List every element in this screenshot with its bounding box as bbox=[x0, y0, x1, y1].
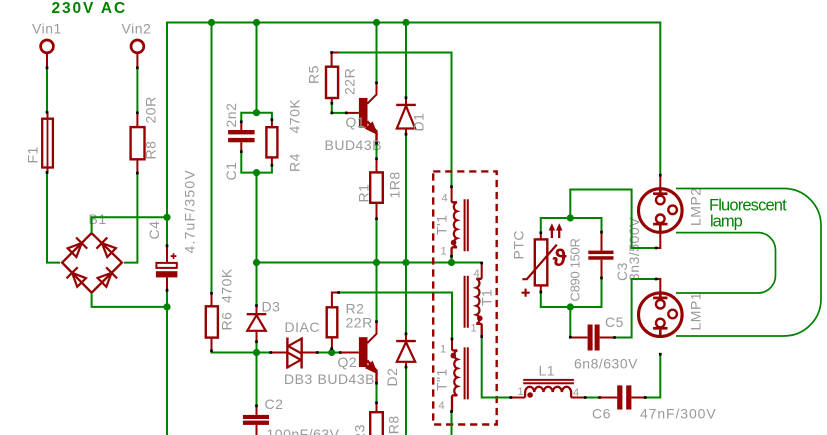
pin ticks R6 bbox=[210, 292, 213, 352]
pin LMP1 top lead bbox=[656, 279, 660, 293]
capacitor C1 plate1 bbox=[228, 130, 255, 134]
polarity dot T"1 bbox=[451, 353, 457, 359]
junction mid-rail T'1 bbox=[448, 259, 455, 266]
pin ticks DIAC bbox=[269, 351, 341, 354]
pin ticks C5 bbox=[569, 278, 658, 339]
pin T"1 1 lead bbox=[451, 339, 453, 351]
svg-text:R4: R4 bbox=[287, 153, 303, 172]
svg-text:PTC: PTC bbox=[511, 230, 527, 260]
pin R1 bottom bbox=[376, 203, 378, 219]
svg-text:ϑ: ϑ bbox=[553, 245, 567, 272]
wire mid-rail node OUT bbox=[257, 262, 482, 264]
wire C1 top link bbox=[241, 113, 256, 122]
svg-text:1: 1 bbox=[441, 246, 448, 258]
wire R1 to mid-rail bbox=[376, 219, 378, 263]
capacitor C6 plate1 bbox=[617, 385, 622, 409]
capacitor C5 plate2 bbox=[595, 325, 600, 351]
pin ticks T1mid bbox=[480, 262, 483, 338]
pin ticks C4 bbox=[166, 244, 169, 291]
junction mid-rail x376 bbox=[373, 259, 380, 266]
svg-text:T'1: T'1 bbox=[434, 214, 450, 235]
wire mid-rail to D3 bbox=[256, 263, 258, 306]
svg-text:C5: C5 bbox=[605, 314, 624, 330]
wire DC- down off-sheet bbox=[166, 307, 168, 435]
pin L1 4 lead bbox=[571, 397, 585, 399]
diode D2 bbox=[396, 341, 416, 362]
pin ticks LMP2 top bbox=[659, 174, 662, 177]
svg-text:Q2: Q2 bbox=[338, 354, 358, 370]
svg-text:lamp: lamp bbox=[710, 213, 743, 231]
pin R8 bottom bbox=[136, 159, 138, 173]
svg-text:Q1: Q1 bbox=[346, 114, 366, 130]
junction DIAC rail D3 bbox=[253, 349, 260, 356]
svg-text:R3: R3 bbox=[352, 424, 368, 435]
core L1 bbox=[523, 380, 574, 383]
svg-text:D1: D1 bbox=[411, 113, 427, 132]
pin ticks C6 bbox=[644, 396, 647, 399]
junction DC- at C4 bottom bbox=[163, 303, 170, 310]
bridge B1 diode minus-ac2 bbox=[98, 267, 118, 287]
wire Q1 emitter to R1 bbox=[376, 143, 378, 159]
pin ticks LMP2 bottom bbox=[655, 247, 658, 250]
wire R4 bottom link bbox=[257, 166, 272, 173]
bridge B1 diode ac1-plus bbox=[68, 238, 88, 258]
winding T1 bbox=[476, 279, 481, 324]
svg-text:T"1: T"1 bbox=[434, 368, 450, 391]
svg-text:1R8: 1R8 bbox=[386, 415, 402, 435]
wire Vin2 to R8 bbox=[136, 68, 138, 113]
pin ticks T'1 bbox=[450, 185, 453, 257]
svg-text:20R: 20R bbox=[143, 96, 159, 123]
junction bus x376 bbox=[373, 19, 380, 26]
pin ticks PTC bbox=[539, 231, 542, 293]
svg-text:R1: R1 bbox=[356, 184, 372, 203]
pin ticks T"1 bbox=[450, 338, 453, 413]
pin DIAC right bbox=[302, 352, 318, 354]
wire PTC loop bottom bbox=[541, 278, 602, 307]
pin C5 right bbox=[600, 337, 615, 339]
wire C4 top lead bbox=[166, 217, 168, 246]
thermistor PTC slash bbox=[522, 245, 556, 280]
bridge B1 diode minus-ac1 bbox=[67, 267, 87, 287]
svg-text:1: 1 bbox=[518, 386, 525, 398]
svg-text:C890 150R: C890 150R bbox=[568, 238, 583, 301]
pin R2 bottom bbox=[331, 337, 333, 348]
pin L1 1 lead bbox=[511, 397, 525, 399]
svg-text:T1: T1 bbox=[479, 289, 495, 306]
pin C2 bottom bbox=[256, 425, 258, 435]
transistor Q2 base bar bbox=[359, 337, 368, 367]
wire T'1 to mid-rail bbox=[451, 257, 453, 263]
capacitor C4 minus plate bbox=[156, 271, 178, 277]
svg-text:1: 1 bbox=[440, 344, 447, 356]
capacitor C1 plate2 bbox=[228, 138, 255, 142]
pin DIAC left bbox=[272, 352, 287, 354]
lamp LMP2 bbox=[639, 188, 683, 234]
junction C1R4 bottom bbox=[253, 169, 260, 176]
diode D1 bbox=[396, 105, 416, 129]
svg-text:R8: R8 bbox=[143, 141, 159, 160]
svg-text:Vin1: Vin1 bbox=[32, 21, 62, 37]
fuse F1 bbox=[42, 119, 53, 168]
wire Q2 emitter to R3 bbox=[376, 383, 378, 403]
svg-text:6n8/630V: 6n8/630V bbox=[574, 356, 638, 372]
junction mid-rail left bbox=[253, 259, 260, 266]
svg-text:470K: 470K bbox=[219, 268, 235, 303]
svg-text:4: 4 bbox=[439, 400, 446, 412]
pin D3 cathode bbox=[256, 306, 258, 314]
pin C2 top bbox=[256, 406, 258, 415]
svg-text:C4: C4 bbox=[146, 221, 162, 240]
wire mid-rail to D2 bbox=[405, 263, 407, 335]
pin R6 top bbox=[211, 294, 213, 307]
wire Vin1 to F1 bbox=[46, 68, 48, 112]
transistor Q1 emitter bbox=[367, 121, 376, 143]
thermistor PTC arrows bbox=[549, 223, 563, 238]
svg-text:4: 4 bbox=[474, 268, 481, 280]
svg-text:DB3: DB3 bbox=[284, 371, 313, 387]
svg-text:D3: D3 bbox=[262, 299, 281, 315]
junction mid-rail x406 bbox=[402, 259, 409, 266]
capacitor C3 plate2 bbox=[588, 256, 613, 260]
svg-text:C2: C2 bbox=[265, 396, 284, 412]
wire bus to C1 block bbox=[256, 23, 258, 113]
junction Q2 base node bbox=[328, 349, 335, 356]
pin F1 top bbox=[47, 112, 49, 119]
resistor R3 (cut) bbox=[370, 412, 383, 435]
pin ticks C3 bbox=[600, 231, 603, 280]
thermistor PTC plus bbox=[522, 289, 530, 297]
svg-text:1: 1 bbox=[471, 323, 478, 335]
wire DIAC rail bbox=[212, 352, 273, 354]
wire bus to D1 bbox=[405, 23, 407, 98]
resistor R2 bbox=[327, 307, 338, 337]
pin R4 bottom bbox=[271, 157, 273, 165]
pin ticks Vin1 branch bbox=[46, 66, 49, 173]
svg-text:L1: L1 bbox=[539, 363, 556, 379]
pin ticks Vin2 branch bbox=[136, 66, 139, 174]
pin ticks Q2 R2 R3 bbox=[330, 291, 378, 404]
svg-text:1R8: 1R8 bbox=[387, 171, 403, 198]
capacitor C4 plus sign bbox=[171, 253, 177, 259]
junction DC+ at C4 top bbox=[163, 214, 170, 221]
pin LMP2 bottom lead bbox=[656, 233, 660, 248]
pin Vin1 stub bbox=[46, 53, 48, 68]
svg-text:230V AC: 230V AC bbox=[52, 0, 128, 17]
svg-text:D2: D2 bbox=[384, 368, 400, 387]
pin Q2 collector bbox=[367, 322, 376, 344]
wire T1 to L1 bbox=[482, 337, 511, 398]
pin D3 anode bbox=[256, 331, 258, 342]
wire mid-rail to Q2 collector bbox=[376, 263, 378, 322]
svg-text:4: 4 bbox=[573, 387, 580, 399]
pin T'1 4 lead bbox=[451, 187, 453, 203]
fuse F1 wire-through bbox=[47, 119, 49, 167]
pin R4 top bbox=[271, 120, 273, 128]
pin R1 top bbox=[376, 159, 378, 172]
svg-text:F1: F1 bbox=[25, 146, 41, 163]
diode D3 bbox=[247, 314, 267, 331]
svg-text:LMP2: LMP2 bbox=[688, 187, 704, 226]
pin ticks Q1 R5 R1 bbox=[330, 51, 378, 220]
transformer T1 boundary box bbox=[433, 171, 497, 424]
transistor Q1 base bar bbox=[359, 98, 368, 128]
pin C4 plus bbox=[166, 246, 168, 263]
pin D2 cathode bbox=[405, 334, 407, 341]
wire R6 to DIAC rail bbox=[212, 351, 257, 353]
wire C1 block to mid-rail bbox=[256, 173, 258, 263]
wire rail to C2 bbox=[256, 353, 258, 407]
svg-text:C1: C1 bbox=[223, 162, 239, 181]
wire DIAC to R2 node bbox=[318, 352, 332, 354]
pin R2 top corner bbox=[332, 293, 339, 308]
pin C5 left bbox=[570, 337, 587, 339]
pin C1 top bbox=[240, 122, 242, 130]
wire R2 to T"1 pin1 bbox=[339, 293, 452, 339]
junction bus x211 bbox=[208, 19, 215, 26]
pin Q2 base bbox=[341, 352, 359, 354]
svg-text:Fluorescent: Fluorescent bbox=[709, 196, 787, 214]
wire R5 to T'1 pin4 bbox=[339, 53, 452, 187]
wire D3 to rail bbox=[256, 342, 258, 353]
svg-text:R6: R6 bbox=[219, 312, 235, 331]
wire PTC to C5 bbox=[569, 307, 571, 338]
pin ticks D3 bbox=[255, 304, 258, 343]
wire B1 plus to DC+ corner bbox=[92, 217, 167, 233]
wire D2 down off-sheet bbox=[405, 367, 407, 435]
inductor L1 coil bbox=[525, 387, 571, 398]
polarity dot T'1 bbox=[451, 240, 457, 246]
svg-text:BUD43B: BUD43B bbox=[325, 137, 382, 153]
wire D1 to mid-rail bbox=[405, 134, 407, 263]
wire F1 to B1 ac1 bbox=[47, 173, 60, 263]
wire bus to Q1 collector bbox=[376, 23, 378, 84]
capacitor C3 plate1 bbox=[588, 251, 613, 255]
svg-text:BUD43B: BUD43B bbox=[318, 371, 375, 387]
core T1 bbox=[465, 276, 468, 328]
wire C1 bottom link bbox=[241, 152, 256, 173]
wire bus to R6 bbox=[211, 23, 213, 294]
wire DC+ top bus bbox=[167, 23, 660, 218]
svg-text:Vin2: Vin2 bbox=[122, 21, 152, 37]
svg-text:C6: C6 bbox=[592, 406, 611, 422]
pin D2 anode bbox=[405, 362, 407, 367]
wire C6 to LMP1 bbox=[645, 355, 660, 398]
wire L1 to C6 bbox=[585, 397, 599, 399]
wire PTC to LMP2 bottom bbox=[570, 190, 656, 249]
svg-text:22R: 22R bbox=[346, 315, 373, 331]
polarity dot T1 bbox=[477, 316, 483, 322]
resistor R4 bbox=[266, 127, 277, 157]
wire B1 minus rail bbox=[92, 293, 167, 307]
bridge rectifier B1 frame bbox=[62, 233, 122, 293]
capacitor C2 plate2 bbox=[243, 421, 269, 425]
pin C6 right bbox=[631, 397, 645, 399]
pin ticks C1 R4 bbox=[240, 118, 273, 166]
capacitor C5 plate1 bbox=[588, 325, 593, 351]
svg-text:LMP1: LMP1 bbox=[688, 292, 704, 331]
pin Q1 collector bbox=[367, 83, 376, 104]
pin C3 top bbox=[601, 232, 603, 250]
pin R5 bottom bbox=[331, 98, 333, 104]
svg-text:2n2: 2n2 bbox=[223, 103, 239, 128]
pin R3 top bbox=[376, 403, 378, 412]
wire DIAC rail right bbox=[301, 352, 341, 354]
pin PTC bottom bbox=[540, 285, 542, 291]
resistor R6 bbox=[206, 306, 218, 337]
core T"1 bbox=[465, 347, 468, 399]
resistor R5 bbox=[326, 67, 338, 98]
svg-text:4: 4 bbox=[442, 193, 449, 205]
junction bus x256 bbox=[253, 19, 260, 26]
pin LMP2 top lead bbox=[659, 176, 661, 190]
svg-text:470K: 470K bbox=[287, 99, 303, 134]
capacitor C2 plate1 bbox=[243, 415, 269, 419]
pin R5 top corner bbox=[332, 53, 339, 67]
winding T'1 bbox=[452, 202, 457, 247]
svg-text:R5: R5 bbox=[306, 65, 322, 84]
junction bus x406 bbox=[402, 19, 409, 26]
pin ticks LMP1 bbox=[659, 353, 662, 356]
terminal Vin2 bbox=[131, 40, 144, 53]
pin R8 top bbox=[136, 113, 138, 128]
pin C6 left bbox=[600, 397, 618, 399]
wire R5 to Q1 base bbox=[332, 104, 347, 113]
pin R6 bottom bbox=[211, 338, 213, 351]
pin D1 anode bbox=[405, 129, 407, 135]
junction PTC bottom bbox=[567, 303, 574, 310]
pin ticks D1 bbox=[405, 96, 408, 135]
svg-text:22R: 22R bbox=[342, 68, 358, 95]
capacitor C6 plate2 bbox=[626, 385, 631, 409]
junction C1R4 top bbox=[253, 109, 260, 116]
svg-text:DIAC: DIAC bbox=[285, 319, 320, 335]
thermistor PTC body bbox=[535, 239, 548, 285]
pin Vin2 stub bbox=[136, 53, 138, 68]
pin D1 cathode bbox=[405, 98, 407, 105]
pin C1 bottom bbox=[240, 142, 242, 151]
resistor R1 bbox=[370, 172, 383, 202]
capacitor C4 plus plate bbox=[156, 263, 176, 268]
svg-text:4.7uF/350V: 4.7uF/350V bbox=[182, 169, 198, 253]
wire PTC loop top bbox=[541, 218, 602, 233]
wire T"1 down off-sheet bbox=[451, 412, 453, 435]
wire R4 top link bbox=[257, 113, 272, 120]
lamp LMP1 bbox=[639, 292, 683, 338]
pin PTC top bbox=[540, 233, 542, 239]
terminal Vin1 bbox=[41, 40, 54, 53]
pin C4 minus bbox=[166, 277, 168, 290]
pin Q1 base bbox=[347, 112, 359, 114]
diac DB3 symbol bbox=[287, 338, 301, 369]
wire R8 to B1 ac2 bbox=[124, 173, 137, 262]
wire C4 bottom lead bbox=[166, 291, 168, 307]
resistor R8 bbox=[131, 127, 145, 159]
fluorescent tube outline bbox=[676, 189, 821, 337]
junction PTC top bbox=[567, 214, 574, 221]
svg-text:47nF/300V: 47nF/300V bbox=[640, 406, 717, 422]
pin ticks D2 bbox=[405, 332, 408, 368]
pin F1 bottom bbox=[47, 168, 49, 173]
winding T"1 bbox=[452, 350, 457, 395]
polarity dot L1 bbox=[527, 392, 533, 398]
pin T1 4 lead bbox=[481, 263, 483, 279]
bridge B1 diode ac2-plus bbox=[96, 238, 116, 258]
pin C3 bottom bbox=[601, 260, 603, 278]
core T'1 bbox=[465, 199, 468, 251]
wire R2 to base node bbox=[331, 349, 333, 353]
pin ticks C2 bbox=[255, 404, 258, 407]
transistor Q2 emitter bbox=[367, 361, 376, 383]
pin ticks L1 bbox=[509, 396, 601, 399]
wire C5 to LMP1 top bbox=[615, 279, 657, 338]
svg-text:100nF/63V: 100nF/63V bbox=[267, 426, 340, 435]
